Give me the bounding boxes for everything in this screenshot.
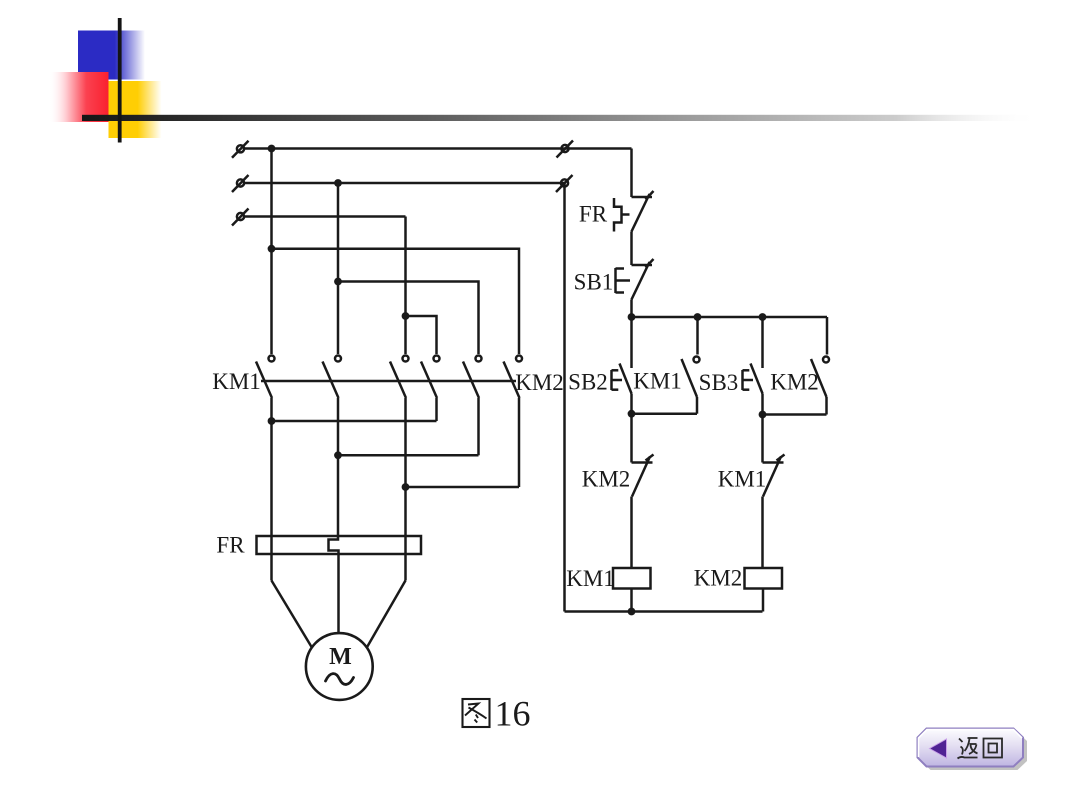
return button — [918, 729, 1028, 771]
node L2/phase2 — [334, 179, 342, 187]
node pole1/pole4 — [268, 417, 276, 425]
glyph 图 — [463, 699, 490, 727]
wire joining SB3/KM2aux — [763, 413, 827, 416]
node crossover 2 — [334, 278, 342, 286]
button bevel highlight — [919, 730, 1023, 758]
wire crossover L1 to KM2 pole6 — [272, 249, 520, 354]
mechanical linkage line — [261, 380, 516, 383]
KM1 main contact pole 1 — [269, 356, 275, 362]
thermal relay FR heater — [257, 455, 422, 700]
KM2 main contact pole 6 — [516, 356, 522, 362]
KM1 NC interlock contact — [763, 461, 784, 464]
wire phase2 drop — [337, 183, 340, 354]
node crossover 3 — [402, 312, 410, 320]
wire pole5 bottom to phase2 wire — [338, 454, 479, 457]
horizontal divider line — [82, 115, 1040, 121]
wire joining SB2/KM1aux — [632, 412, 698, 415]
svg-text:16: 16 — [495, 694, 531, 734]
svg-text:KM1: KM1 — [718, 467, 767, 492]
KM2 main contact pole 5 — [476, 356, 482, 362]
SB1 NC stop button — [632, 264, 653, 267]
node pole2/pole5 — [334, 451, 342, 459]
caption 图16 — [463, 699, 490, 727]
wire right diagonal to motor — [367, 581, 406, 648]
wire to FR heater right — [404, 487, 407, 581]
KM2 main contact pole 4 — [434, 356, 440, 362]
wire left diagonal to motor — [272, 581, 312, 648]
coil KM2 — [745, 568, 783, 589]
FR thermal element symbol — [614, 198, 622, 232]
yellow square — [109, 81, 162, 138]
svg-text:SB2: SB2 — [568, 370, 608, 395]
node branch2 join — [759, 411, 767, 419]
svg-text:SB1: SB1 — [574, 270, 614, 295]
svg-text:KM2: KM2 — [694, 566, 743, 591]
wire left control vertical — [563, 183, 566, 612]
node rail SB2 — [628, 313, 636, 321]
FR NC contact — [632, 196, 653, 199]
wire crossover L2 to KM2 pole5 — [338, 282, 479, 355]
disconnect QS pole 3 — [237, 213, 244, 220]
svg-text:KM1: KM1 — [566, 566, 615, 591]
wire phase3 drop — [404, 217, 407, 355]
KM2 aux NO contact — [826, 317, 829, 355]
SB2 NO start button — [630, 317, 633, 368]
svg-text:M: M — [329, 644, 352, 670]
wire to FR heater left — [270, 421, 273, 581]
node branch1 join — [628, 410, 636, 418]
wire branch1 down — [630, 414, 633, 463]
contact poles KM1/KM2 main contacts — [256, 356, 522, 581]
node rail SB3 — [759, 313, 767, 321]
blue square — [78, 31, 145, 80]
svg-text:FR: FR — [216, 533, 245, 558]
arrow triangle — [930, 739, 947, 758]
vertical black bar — [118, 18, 122, 143]
svg-text:SB3: SB3 — [699, 370, 739, 395]
svg-text:KM2: KM2 — [770, 370, 819, 395]
wire pole4 bottom to phase1 wire — [272, 420, 437, 423]
red square — [50, 72, 109, 122]
node rail KM1aux — [694, 313, 702, 321]
node pole3/pole6 — [402, 483, 410, 491]
svg-text:KM1: KM1 — [212, 369, 261, 394]
wire L2 phase line — [245, 182, 565, 185]
svg-text:KM2: KM2 — [515, 370, 564, 395]
fuse FU2 on L2 — [561, 179, 568, 186]
FR heater element jog on middle wire — [329, 455, 339, 633]
decorative logo top-left — [50, 18, 1040, 143]
FR heater box — [257, 536, 422, 554]
disconnect QS pole 1 — [237, 145, 244, 152]
KM2 NC interlock contact — [632, 461, 653, 464]
disconnect QS pole 2 — [237, 179, 244, 186]
wire L1 to FR contact — [630, 149, 633, 198]
svg-text:KM2: KM2 — [582, 467, 631, 492]
button shadow — [922, 732, 1028, 770]
wire branch top rail — [632, 316, 828, 319]
KM1 main contact pole 2 — [335, 356, 341, 362]
wire pole6 bottom to phase3 wire — [406, 486, 520, 489]
wire bottom rail — [565, 610, 763, 613]
node L1/phase1 — [268, 145, 276, 153]
node crossover 1 — [268, 245, 276, 253]
coil KM1 — [613, 568, 651, 589]
svg-text:KM1: KM1 — [633, 369, 682, 394]
fuse FU1 on L1 — [561, 145, 568, 152]
wire phase1 drop — [270, 149, 273, 355]
node bottom rail — [628, 608, 636, 616]
motor M circle — [306, 633, 373, 700]
svg-text:FR: FR — [579, 202, 608, 227]
KM1 main contact pole 3 — [403, 356, 409, 362]
KM1 aux NO contact — [696, 317, 699, 355]
wire L3 phase line — [245, 215, 406, 218]
button body — [918, 729, 1024, 767]
glyph 返 — [958, 738, 978, 759]
wire crossover L3 to KM2 pole4 — [406, 316, 437, 354]
wire L1 phase line — [245, 147, 632, 150]
glyph 回 — [984, 739, 1003, 758]
wire branch2 down — [761, 415, 764, 463]
SB3 NO start button — [761, 317, 764, 368]
motor tilde — [326, 674, 354, 685]
